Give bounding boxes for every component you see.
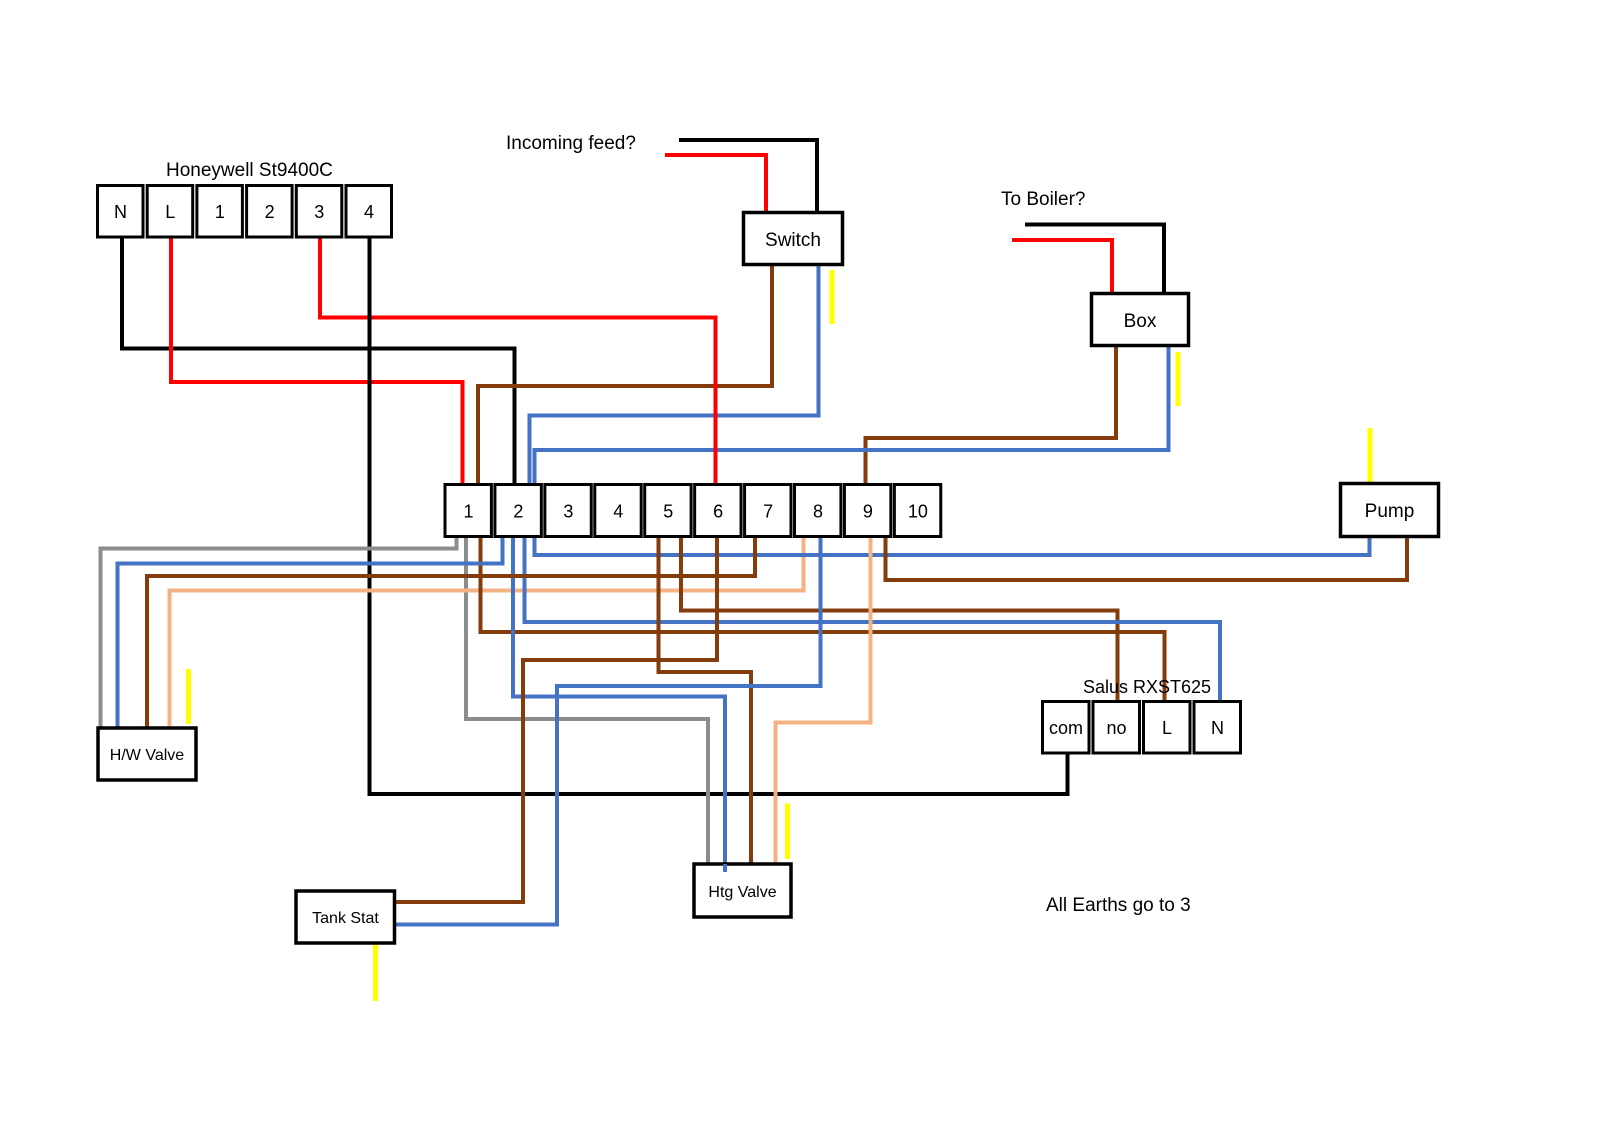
svg-text:3: 3	[314, 202, 324, 222]
svg-text:All Earths go to 3: All Earths go to 3	[1046, 895, 1191, 916]
wire Honeywell L to terminal 1 (red)	[171, 237, 463, 485]
wire Pump to terminal 2 (blue)	[535, 536, 1370, 555]
svg-text:4: 4	[364, 202, 374, 222]
wire terminal 5 to Htg Valve (brown)	[659, 536, 752, 864]
wire incoming feed black	[679, 140, 817, 213]
Honeywell terminal N	[98, 186, 144, 238]
wire earth stub at Box (yellow)	[1176, 352, 1181, 406]
Honeywell terminal 4	[346, 186, 392, 238]
wire Honeywell N to terminal 2 (black)	[122, 237, 515, 485]
Salus terminal no	[1093, 702, 1140, 754]
wire earth stub at Pump (yellow)	[1368, 428, 1373, 483]
svg-text:8: 8	[813, 502, 823, 522]
pump box	[1341, 484, 1439, 537]
Salus terminal com	[1043, 702, 1090, 754]
svg-text:5: 5	[663, 502, 673, 522]
wire terminal 2 to H/W Valve (blue)	[118, 536, 503, 728]
wire Switch to terminal 1 (brown)	[478, 264, 772, 485]
svg-text:10: 10	[908, 502, 928, 522]
wire Box to terminal 2 (blue)	[535, 345, 1169, 485]
terminal 5	[645, 485, 691, 537]
wire terminal 9 to Htg Valve (peach)	[776, 536, 871, 864]
svg-text:9: 9	[863, 502, 873, 522]
svg-text:To Boiler?: To Boiler?	[1001, 189, 1086, 210]
svg-text:N: N	[114, 202, 127, 222]
terminal 1	[445, 485, 491, 537]
terminal 4	[595, 485, 641, 537]
wire terminal 2 to Htg Valve (blue)	[513, 536, 725, 864]
svg-text:6: 6	[713, 502, 723, 522]
terminal 2	[495, 485, 541, 537]
Salus terminal N	[1194, 702, 1241, 754]
terminal 10	[894, 485, 940, 537]
wire Pump to terminal 9 (brown)	[886, 536, 1408, 580]
svg-text:Box: Box	[1124, 311, 1157, 332]
svg-text:Incoming feed?: Incoming feed?	[506, 133, 636, 154]
Honeywell terminal 1	[197, 186, 243, 238]
svg-text:Honeywell St9400C: Honeywell St9400C	[166, 160, 333, 181]
wire Honeywell 4 to Salus com (black)	[370, 237, 1068, 794]
terminal 6	[695, 485, 741, 537]
wire terminal 1 to Htg Valve (gray)	[466, 536, 708, 864]
svg-text:Tank Stat: Tank Stat	[312, 910, 379, 927]
wire terminal 1 to Salus L (brown)	[481, 536, 1165, 702]
wire to-boiler black	[1025, 225, 1164, 295]
wire Tank Stat to terminal 8 (blue)	[394, 536, 821, 925]
wire Honeywell 3 to terminal 6 (red)	[320, 237, 716, 485]
terminal 3	[545, 485, 591, 537]
wire H/W Valve to terminal 7 (brown)	[147, 536, 755, 728]
terminal 7	[745, 485, 791, 537]
wire H/W Valve to terminal 8 (peach)	[170, 536, 804, 728]
wire terminal 2 to Salus N (blue)	[525, 536, 1221, 702]
svg-text:1: 1	[215, 202, 225, 222]
switch box	[744, 213, 843, 265]
terminal 9	[844, 485, 890, 537]
svg-text:2: 2	[265, 202, 275, 222]
wire Box to terminal 9 (brown)	[866, 345, 1117, 485]
svg-text:Salus RXST625: Salus RXST625	[1083, 677, 1211, 697]
wire terminal 6 to Tank Stat (brown)	[394, 536, 717, 902]
Htg valve box	[694, 864, 791, 917]
H/W valve box	[98, 728, 196, 780]
wire terminal 1 to H/W Valve (gray)	[101, 536, 457, 728]
svg-text:com: com	[1049, 718, 1083, 738]
Honeywell terminal 2	[247, 186, 293, 238]
svg-text:Switch: Switch	[765, 230, 821, 251]
wire stub of blue wire inside Htg Valve box	[723, 864, 727, 872]
svg-text:4: 4	[613, 502, 623, 522]
svg-text:H/W Valve: H/W Valve	[110, 747, 184, 764]
svg-text:L: L	[1162, 718, 1172, 738]
terminal 8	[795, 485, 841, 537]
junction box	[1092, 294, 1189, 346]
svg-text:Pump: Pump	[1365, 501, 1415, 522]
Honeywell terminal 3	[296, 186, 342, 238]
wire earth stub at Switch (yellow)	[830, 270, 835, 324]
svg-text:N: N	[1211, 718, 1224, 738]
svg-text:7: 7	[763, 502, 773, 522]
svg-text:Htg Valve: Htg Valve	[708, 884, 776, 901]
svg-text:2: 2	[513, 502, 523, 522]
wire earth stub at H/W Valve (yellow)	[186, 669, 191, 724]
wire earth stub at Htg Valve (yellow)	[785, 804, 790, 860]
wire terminal 5 to Salus no (brown)	[681, 536, 1118, 702]
wire Switch to terminal 2 (blue)	[530, 264, 819, 485]
tank stat box	[296, 891, 395, 943]
svg-text:3: 3	[563, 502, 573, 522]
svg-text:1: 1	[463, 502, 473, 522]
svg-text:L: L	[165, 202, 175, 222]
wire incoming feed red	[665, 155, 766, 213]
wire to-boiler red	[1012, 240, 1112, 294]
Salus terminal L	[1144, 702, 1191, 754]
svg-text:no: no	[1106, 718, 1126, 738]
Honeywell terminal L	[147, 186, 193, 238]
wire earth stub at Tank Stat (yellow)	[373, 944, 378, 1001]
